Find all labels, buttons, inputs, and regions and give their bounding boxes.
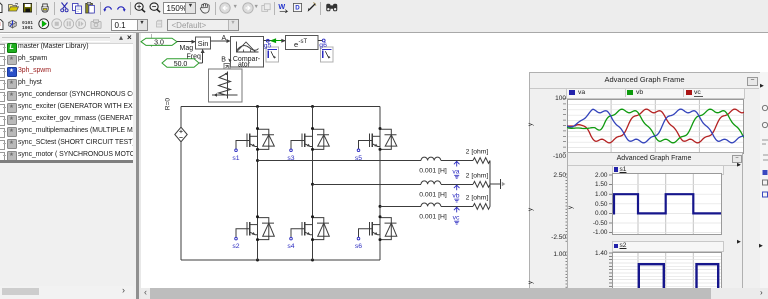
svg-text:vc: vc — [453, 214, 460, 221]
block Sin U1 — [196, 37, 211, 49]
inductor LB 0.001 H — [421, 181, 441, 184]
junction bottom rail leg2 — [311, 259, 314, 262]
svg-text:g5: g5 — [264, 43, 272, 50]
node g5 — [266, 39, 269, 42]
wire comparator output — [263, 40, 285, 42]
tree panel bottom scrollbar — [0, 286, 133, 299]
junction emitter s1 — [256, 148, 259, 151]
junction collector s1 — [256, 127, 259, 130]
svg-text:s4: s4 — [287, 243, 294, 250]
wire phase B bus — [313, 183, 422, 185]
wire phase A bus — [258, 160, 422, 162]
svg-text:0.001 [H]: 0.001 [H] — [419, 192, 447, 199]
comparator U2 — [231, 37, 264, 69]
transistor s4 (IGBT with diode) — [290, 218, 330, 240]
junction collector s2 — [256, 215, 259, 218]
junction emitter s5 — [379, 148, 382, 151]
junction emitter s2 — [256, 238, 259, 241]
svg-text:0.001 [H]: 0.001 [H] — [419, 168, 447, 175]
svg-text:2 [ohm]: 2 [ohm] — [466, 194, 489, 201]
svg-text:-sT: -sT — [299, 39, 308, 45]
wire leg2 — [312, 107, 314, 261]
wire top rail — [181, 106, 380, 108]
svg-text:ator: ator — [238, 62, 251, 69]
transistor s3 (IGBT with diode) — [290, 129, 330, 151]
arrow B input — [228, 59, 231, 63]
junction top rail leg1 — [256, 105, 259, 108]
junction collector s4 — [311, 215, 314, 218]
monitor box below g6 — [320, 47, 333, 62]
svg-text:Freq: Freq — [187, 54, 202, 61]
node g6 — [322, 39, 325, 42]
svg-text:s6: s6 — [355, 243, 362, 250]
delay block e^-sT U4 — [286, 36, 318, 50]
voltmeter vb — [452, 185, 459, 202]
svg-text:Sin: Sin — [198, 39, 209, 48]
voltmeter vc — [453, 207, 460, 224]
junction bottom rail leg1 — [256, 259, 259, 262]
separator bar under tree — [0, 160, 133, 163]
ground — [490, 179, 506, 189]
wire Freq — [199, 49, 205, 63]
node phase C — [379, 205, 382, 208]
wire Sin to comparator A — [211, 39, 231, 43]
junction emitter s3 — [311, 148, 314, 151]
wire leg3 — [379, 107, 381, 261]
right edge strip glyphs — [760, 72, 768, 288]
data label 50.0 (Freq slider) — [162, 59, 199, 68]
voltmeter va — [452, 161, 459, 178]
transistor s6 (IGBT with diode) — [357, 218, 397, 240]
wire phase C bus — [380, 205, 421, 207]
node phase A — [256, 159, 259, 162]
arrowhead into delay — [281, 39, 286, 43]
junction emitter s4 — [311, 238, 314, 241]
triangle wave generator U3 — [208, 64, 242, 102]
svg-text:B: B — [221, 56, 226, 63]
DC source E1 — [175, 107, 187, 261]
svg-text:s2: s2 — [232, 243, 239, 250]
transistor s2 (IGBT with diode) — [235, 218, 275, 240]
green arrow — [270, 38, 282, 43]
data label 3.0 (Mag slider) — [141, 38, 177, 46]
wire delay output — [318, 40, 323, 42]
wire Mag — [177, 40, 196, 44]
resistor RB 2 ohm — [473, 181, 490, 187]
junction collector s5 — [379, 127, 382, 130]
svg-text:50.0: 50.0 — [174, 61, 188, 68]
junction top rail leg2 — [311, 105, 314, 108]
wire phase C mid — [441, 205, 473, 207]
svg-text:va: va — [452, 169, 459, 176]
transistor s1 (IGBT with diode) — [235, 129, 275, 151]
junction collector s6 — [379, 215, 382, 218]
svg-text:g6: g6 — [319, 42, 327, 49]
wire bottom rail — [181, 259, 380, 261]
svg-text:s1: s1 — [232, 155, 239, 162]
node phase B — [311, 183, 314, 186]
right border of tree panel — [133, 33, 136, 299]
inductor LA 0.001 H — [421, 157, 441, 160]
resistor RA 2 ohm — [473, 158, 490, 164]
svg-text:Mag: Mag — [180, 45, 194, 52]
inductor LC 0.001 H — [421, 203, 441, 206]
wire phase A mid — [441, 160, 473, 162]
wire leg1 — [257, 107, 259, 261]
svg-text:A: A — [222, 35, 227, 42]
svg-text:2 [ohm]: 2 [ohm] — [466, 149, 489, 156]
monitor box below g5 — [266, 47, 279, 62]
svg-text:3.0: 3.0 — [154, 39, 164, 46]
svg-text:0.001 [H]: 0.001 [H] — [419, 214, 447, 221]
resistor RC 2 ohm — [473, 204, 490, 210]
wire phase B mid — [441, 183, 473, 185]
junction emitter s6 — [379, 238, 382, 241]
junction collector s3 — [311, 127, 314, 130]
wire right bus — [489, 161, 491, 207]
svg-text:vb: vb — [452, 192, 459, 199]
svg-text:R=0: R=0 — [165, 98, 172, 110]
svg-text:2 [ohm]: 2 [ohm] — [466, 172, 489, 179]
transistor s5 (IGBT with diode) — [357, 129, 397, 151]
